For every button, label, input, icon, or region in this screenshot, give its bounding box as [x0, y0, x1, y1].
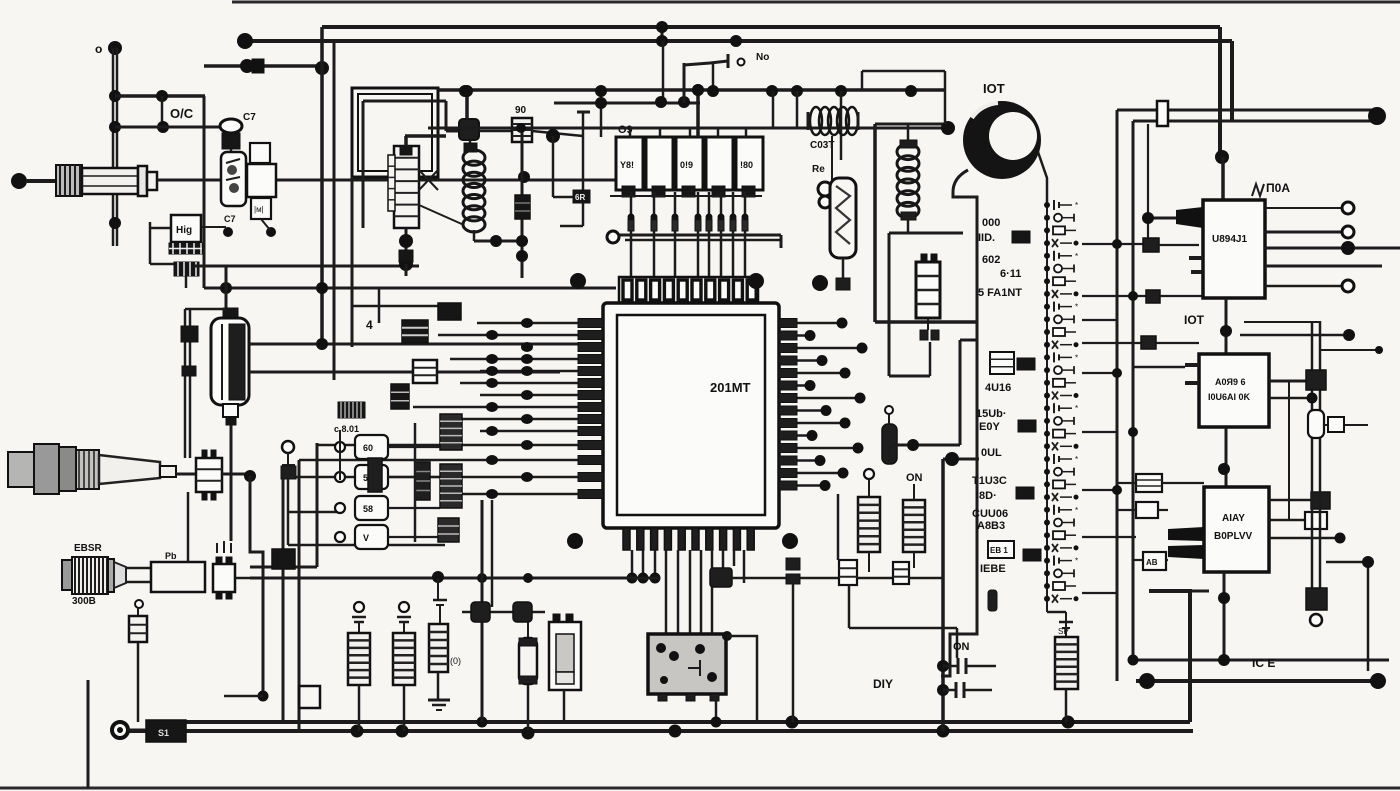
- IC: [990, 352, 1014, 374]
- capacitor C5: [464, 143, 477, 152]
- svg-text:602: 602: [982, 254, 1000, 266]
- wire: [1269, 499, 1311, 502]
- pin 3: [672, 214, 679, 232]
- wire: [941, 615, 977, 676]
- wire: [224, 695, 263, 698]
- label IOT: [983, 81, 1005, 96]
- wire: [352, 305, 438, 308]
- wire: [849, 628, 957, 658]
- wire: [288, 512, 445, 545]
- terminal T1: [220, 119, 242, 133]
- svg-text:CUU06: CUU06: [972, 508, 1008, 520]
- svg-text:ON: ON: [953, 641, 970, 653]
- pin: [578, 343, 603, 352]
- wire: [1082, 536, 1136, 538]
- svg-text:4U16: 4U16: [985, 382, 1011, 394]
- IC U6: [1146, 290, 1160, 303]
- svg-text:T1U3C: T1U3C: [972, 475, 1007, 487]
- wire: [230, 425, 233, 541]
- label O9: [618, 124, 633, 136]
- wire: [113, 48, 117, 246]
- wire: [157, 179, 616, 182]
- sensor S1 body: [11, 173, 56, 189]
- svg-text:U894J1: U894J1: [1212, 234, 1247, 245]
- IC U4: [1204, 487, 1269, 572]
- wire: [700, 550, 703, 634]
- relay K4: [706, 137, 733, 197]
- pin 8: [742, 214, 749, 232]
- wire: [665, 550, 668, 634]
- wire: [779, 484, 825, 487]
- label: [334, 424, 359, 434]
- node: [805, 380, 816, 391]
- resistor: [429, 624, 448, 672]
- wire: [491, 500, 494, 607]
- wire: [1149, 590, 1209, 593]
- wire: [235, 577, 263, 580]
- component: [1044, 341, 1079, 349]
- wire: [1082, 372, 1117, 374]
- wire: [438, 88, 945, 92]
- svg-text:Pb: Pb: [165, 551, 177, 561]
- label 4: [366, 318, 373, 332]
- sensor S1 barrel: [56, 165, 82, 196]
- IC: [1016, 487, 1034, 499]
- wire: [779, 459, 820, 462]
- wire: [959, 340, 962, 445]
- node Z: [486, 318, 533, 499]
- polarized capacitor C8: [513, 602, 532, 622]
- wire: [697, 192, 700, 278]
- wire: [428, 127, 947, 130]
- svg-text:AIAY: AIAY: [1222, 513, 1245, 524]
- node: [941, 121, 955, 135]
- fuse F3: [830, 178, 856, 258]
- label T10A: [1252, 181, 1290, 196]
- wire: [249, 371, 560, 374]
- wire: [772, 91, 775, 128]
- capacitor C15: [920, 330, 939, 340]
- node: [1220, 325, 1232, 337]
- svg-text:0!9: 0!9: [680, 160, 693, 170]
- node: [805, 330, 816, 341]
- wire: [888, 445, 891, 464]
- terminal: [1310, 614, 1322, 626]
- IC: [1023, 549, 1041, 561]
- svg-text:*: *: [1075, 303, 1078, 312]
- ground: [428, 700, 450, 710]
- wire: [246, 175, 250, 178]
- inductor L2: [808, 107, 858, 135]
- relay K2: [646, 137, 673, 197]
- wire: [419, 170, 464, 225]
- node: [627, 573, 638, 584]
- wire: [744, 192, 747, 278]
- relay K3: [676, 137, 703, 197]
- wire: [779, 372, 845, 375]
- svg-text:EB 1: EB 1: [990, 546, 1008, 555]
- wire: [1116, 660, 1119, 681]
- component: [1044, 403, 1078, 413]
- wire: [1129, 659, 1389, 662]
- wire: [225, 266, 228, 309]
- svg-text:*: *: [1075, 455, 1078, 464]
- wire: [1156, 342, 1199, 344]
- wire: [414, 423, 417, 542]
- label ON: [953, 641, 970, 653]
- svg-text:15Ub·: 15Ub·: [976, 408, 1007, 420]
- wire: [779, 322, 842, 325]
- wire: [0, 787, 1400, 790]
- pin: [779, 419, 797, 428]
- hole: [570, 273, 586, 289]
- connector J12: [272, 549, 295, 569]
- wire: [1116, 110, 1119, 660]
- wire: [875, 320, 977, 324]
- inductor L1: [463, 150, 485, 232]
- node: [722, 631, 732, 641]
- component: [1044, 430, 1076, 438]
- wire: [1265, 247, 1400, 250]
- svg-text:IID.: IID.: [978, 232, 995, 244]
- connector J4: [8, 444, 99, 494]
- wire: [1269, 519, 1305, 522]
- resistor: [393, 633, 415, 685]
- component: [1044, 569, 1074, 577]
- wire: [185, 276, 188, 288]
- wire: [1223, 572, 1226, 660]
- wire: [907, 220, 910, 233]
- label I8D&#183;: [976, 490, 997, 502]
- resistor R20: [573, 190, 590, 203]
- wire: [250, 577, 660, 580]
- pin: [578, 319, 603, 328]
- pin 7: [730, 214, 737, 232]
- wire: [696, 90, 700, 137]
- label DIY: [873, 677, 893, 691]
- node: [1112, 239, 1138, 495]
- label 90: [515, 105, 527, 116]
- node A: [237, 33, 253, 49]
- wire: [889, 232, 963, 235]
- wire: [1265, 285, 1342, 288]
- wire: [553, 136, 574, 197]
- capacitor: [397, 602, 411, 633]
- IC U9: [1136, 502, 1158, 518]
- switch SW2: [728, 52, 769, 68]
- node: [907, 439, 919, 451]
- wire: [351, 177, 354, 347]
- label A8B3: [977, 520, 1005, 532]
- IC U3: [1199, 354, 1269, 427]
- node N: [220, 282, 328, 294]
- hole: [748, 273, 764, 289]
- resistor R22: [893, 562, 909, 584]
- relay K6: [247, 143, 276, 197]
- wire: [689, 550, 692, 634]
- node: [1375, 346, 1383, 354]
- wire: [840, 91, 843, 160]
- wire: [1065, 612, 1067, 637]
- node: [650, 573, 661, 584]
- wire: [465, 90, 469, 119]
- pin: [779, 356, 797, 365]
- pin: [578, 367, 603, 376]
- pin: [779, 456, 797, 465]
- capacitor C9: [519, 638, 537, 684]
- component: [1044, 454, 1078, 464]
- svg-text:*: *: [1075, 353, 1078, 362]
- svg-text:AB: AB: [1146, 558, 1158, 567]
- component: [1044, 493, 1079, 501]
- wire: [150, 227, 171, 230]
- svg-text:DIY: DIY: [873, 677, 893, 691]
- relay K9: [549, 614, 581, 690]
- wire: [232, 1, 1400, 4]
- label O/C: [170, 106, 194, 121]
- wire: [779, 359, 822, 362]
- terminal T2: [607, 231, 619, 243]
- pin: [779, 406, 797, 415]
- svg-text:I8D·: I8D·: [976, 490, 997, 502]
- capacitor C11: [943, 658, 996, 674]
- wire: [450, 493, 603, 496]
- wire: [1269, 533, 1346, 544]
- wire: [460, 418, 603, 421]
- node: [1341, 241, 1355, 255]
- wire: [460, 382, 603, 385]
- node: [840, 368, 851, 379]
- svg-text:4: 4: [366, 318, 373, 332]
- svg-text:EBSR: EBSR: [74, 543, 103, 554]
- relay K11: [413, 360, 437, 383]
- wire: [222, 473, 249, 476]
- wire: [1244, 321, 1320, 323]
- wire: [909, 577, 943, 580]
- capacitor C16: [988, 590, 997, 611]
- wire: [842, 258, 845, 280]
- wire: [779, 384, 810, 387]
- wire: [779, 397, 860, 400]
- label ICE: [1252, 656, 1275, 670]
- wire: [1265, 231, 1342, 234]
- svg-text:Re: Re: [812, 164, 825, 175]
- node: [244, 470, 256, 482]
- relay K8: [512, 118, 532, 142]
- wire: [299, 459, 603, 462]
- node C: [730, 35, 742, 47]
- wire: [610, 195, 762, 197]
- wire: [437, 578, 439, 600]
- wire: [631, 550, 634, 578]
- pin 5: [706, 214, 713, 232]
- pin: [779, 394, 797, 403]
- wire: [1133, 366, 1185, 369]
- wire: [560, 225, 583, 228]
- wire: [204, 64, 322, 68]
- node: [1218, 463, 1230, 475]
- node I: [109, 217, 121, 229]
- component: [1044, 277, 1076, 285]
- wire: [250, 566, 317, 569]
- IC: [1018, 420, 1036, 432]
- wire: [477, 322, 603, 325]
- terminal T4: [146, 720, 186, 742]
- node: [853, 443, 864, 454]
- node: [1362, 556, 1374, 568]
- node: [1218, 592, 1230, 604]
- resistor R26: [1055, 637, 1078, 689]
- svg-text:(0): (0): [450, 656, 461, 666]
- pin: [578, 379, 603, 388]
- svg-text:IOT: IOT: [983, 81, 1005, 96]
- wire: [480, 394, 603, 397]
- svg-text:300B: 300B: [72, 596, 96, 607]
- terminal: [1342, 226, 1354, 238]
- wire: [339, 430, 341, 480]
- hole: [567, 533, 583, 549]
- wire: [378, 288, 381, 323]
- pin: [779, 319, 797, 328]
- component: [1044, 352, 1078, 362]
- node H: [109, 121, 121, 133]
- relay K10: [916, 254, 940, 318]
- wire: [438, 334, 603, 337]
- wire: [642, 550, 645, 578]
- wire: [684, 61, 728, 65]
- component: [1044, 480, 1076, 488]
- resistor R24: [903, 484, 925, 552]
- pin: [1185, 365, 1199, 383]
- frame: [352, 88, 438, 177]
- IC: [988, 541, 1014, 558]
- node: [945, 452, 959, 466]
- node Q: [459, 84, 917, 97]
- wire: [137, 642, 140, 722]
- wire: [1221, 157, 1225, 200]
- ground rail: [126, 729, 1193, 733]
- label 5 FA1NT: [978, 287, 1022, 299]
- wire: [941, 459, 945, 731]
- wire: [150, 263, 174, 266]
- pin 1: [628, 214, 635, 232]
- component: [1044, 251, 1078, 261]
- wire: [1038, 152, 1047, 205]
- wire: [388, 476, 440, 478]
- capacitor C19: [1306, 370, 1326, 390]
- node: [258, 691, 269, 702]
- switch SW1: [459, 119, 479, 140]
- node O: [399, 257, 413, 271]
- wire: [1269, 397, 1311, 400]
- wire: [779, 347, 862, 350]
- component: [1044, 582, 1076, 590]
- wire: [1133, 559, 1168, 561]
- IC U5: [1143, 238, 1159, 252]
- pin: [779, 331, 797, 340]
- pin: [578, 415, 603, 424]
- component: [1044, 366, 1074, 374]
- wire: [185, 308, 226, 311]
- wire: [1082, 319, 1117, 321]
- svg-text:c 8.01: c 8.01: [334, 424, 359, 434]
- capacitor C13: [786, 558, 800, 584]
- wire: [481, 500, 484, 722]
- wire: [779, 472, 843, 475]
- wire: [875, 123, 948, 126]
- wire: [630, 128, 746, 137]
- capacitor C2: [181, 326, 198, 342]
- node: [807, 430, 818, 441]
- wire: [889, 322, 930, 376]
- pin: [578, 456, 603, 465]
- relay K13: [299, 686, 320, 708]
- wire: [1240, 334, 1344, 337]
- IC U7: [1141, 336, 1156, 349]
- wire: [1312, 321, 1320, 590]
- resistor: [348, 633, 370, 685]
- wire: [287, 479, 290, 545]
- wire: [792, 584, 795, 722]
- component: [1044, 544, 1079, 552]
- wire: [1320, 349, 1376, 351]
- svg-text:201MT: 201MT: [710, 380, 751, 395]
- node: [840, 418, 851, 429]
- wire: [1082, 295, 1148, 297]
- wire: [187, 492, 190, 562]
- wire: [1225, 427, 1228, 487]
- capacitor C20: [1308, 410, 1324, 438]
- connector J8: [438, 518, 459, 542]
- connector J5: [196, 450, 222, 500]
- capacitor C3: [182, 366, 196, 376]
- capacitor C4: [399, 250, 413, 262]
- node M: [518, 171, 530, 183]
- wire: [450, 358, 603, 361]
- wire: [891, 444, 960, 447]
- svg-text:*: *: [1075, 252, 1078, 261]
- node: [855, 393, 866, 404]
- svg-text:A0Я9 6: A0Я9 6: [1215, 377, 1246, 387]
- connector J4 horn: [99, 455, 176, 484]
- node: [1368, 107, 1386, 125]
- node U: [490, 235, 502, 247]
- node K: [157, 121, 169, 133]
- node: [857, 343, 868, 354]
- wire: [317, 444, 603, 447]
- battery BT1 cap: [223, 308, 238, 320]
- inductor L3 toroid: [963, 101, 1041, 179]
- svg-text:*: *: [1075, 506, 1078, 515]
- IC: [1311, 492, 1330, 509]
- IC: [1012, 231, 1030, 243]
- wire: [1133, 120, 1374, 123]
- svg-text:IC E: IC E: [1252, 656, 1275, 670]
- component: [1044, 379, 1076, 387]
- wire: [563, 690, 566, 722]
- wire: [405, 136, 446, 146]
- wire: [1117, 482, 1204, 484]
- wire: [322, 25, 1220, 29]
- svg-text:6R: 6R: [575, 193, 585, 202]
- pin: [779, 369, 797, 378]
- wire: [677, 550, 680, 634]
- node G: [109, 90, 121, 102]
- wire: [960, 339, 977, 342]
- component: [1044, 468, 1074, 476]
- svg-text:!80: !80: [740, 160, 753, 170]
- svg-text:V: V: [363, 533, 369, 543]
